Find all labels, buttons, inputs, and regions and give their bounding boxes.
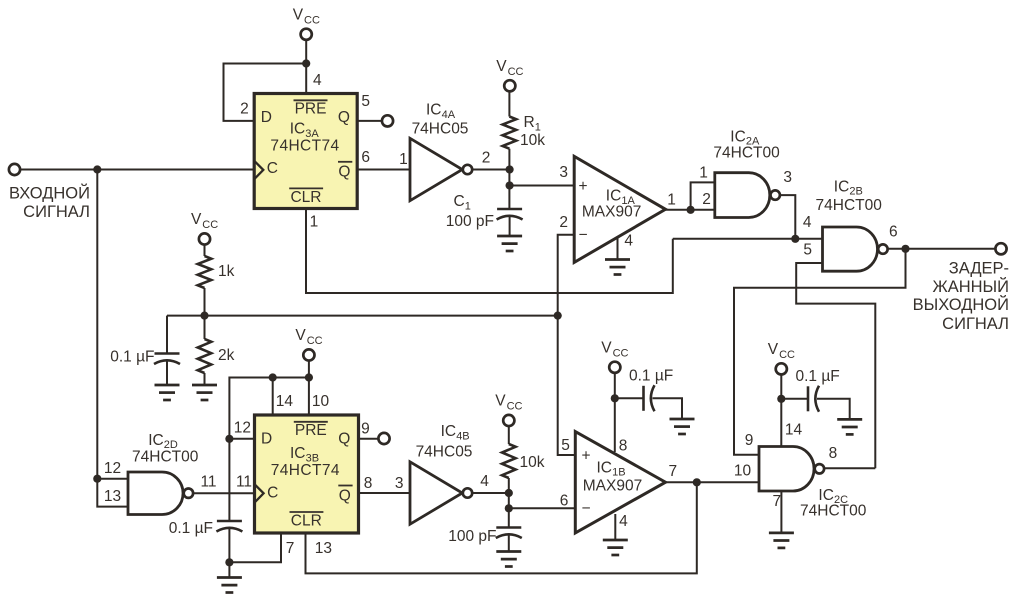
svg-text:6: 6: [361, 149, 370, 166]
svg-text:3: 3: [783, 169, 792, 186]
wire C1 to ground: [509, 216, 511, 237]
svg-text:2: 2: [559, 214, 568, 231]
svg-text:IC: IC: [818, 487, 834, 504]
wire 0.1uF to ground: [166, 360, 168, 385]
wire IC1A - input from divider rail: [558, 235, 575, 455]
wire VCC down to IC3B pin 10: [308, 361, 310, 415]
ground IC1B bypass: [670, 419, 695, 434]
wire 1k to 2k: [204, 288, 206, 339]
svg-text:2k: 2k: [218, 347, 235, 364]
terminal IC3B pin 9 open: [378, 433, 389, 444]
inverter IC4B: [410, 462, 462, 524]
node PRE row left: [269, 373, 277, 381]
ground under C1: [497, 236, 522, 251]
svg-text:C: C: [454, 193, 465, 210]
svg-text:8: 8: [829, 445, 838, 462]
svg-text:Q: Q: [339, 487, 351, 504]
node 10k/IC4B output: [505, 489, 513, 497]
svg-text:IC: IC: [606, 188, 622, 205]
svg-text:Q: Q: [338, 431, 350, 448]
wire IC4B output to RC node: [472, 492, 509, 494]
svg-text:4A: 4A: [442, 109, 456, 121]
svg-text:CC: CC: [779, 349, 795, 361]
svg-text:5: 5: [561, 437, 570, 454]
svg-text:ВХОДНОЙ: ВХОДНОЙ: [9, 183, 90, 202]
svg-text:74HCT74: 74HCT74: [271, 462, 340, 479]
wire IC3B pin 13 to IC1B output node: [306, 482, 697, 573]
node output junction: [901, 245, 909, 253]
power VCC terminal IC2C bypass: [776, 363, 787, 374]
svg-text:−: −: [581, 500, 590, 517]
svg-text:11: 11: [200, 474, 216, 491]
svg-text:V: V: [295, 327, 306, 344]
svg-text:Q: Q: [338, 164, 350, 181]
svg-text:74HC05: 74HC05: [412, 121, 469, 138]
svg-text:2: 2: [482, 150, 491, 167]
wire VCC to IC2C pin 14: [780, 375, 782, 447]
svg-text:V: V: [601, 339, 612, 356]
svg-text:IC: IC: [426, 102, 442, 119]
node IC1A output: [687, 206, 695, 214]
resistor 1k: [198, 256, 212, 288]
wire IC2C pin 7 to ground: [780, 491, 782, 533]
svg-text:−: −: [578, 227, 587, 244]
svg-text:IC: IC: [148, 432, 164, 449]
capacitor 0.1 uF IC2C bypass: [808, 386, 819, 412]
wire feedback VCC tap to IC3A D pin 2: [224, 64, 307, 121]
nand gate IC2A: [715, 173, 770, 218]
wire RC node to IC1A + input: [510, 185, 575, 187]
svg-text:8: 8: [364, 475, 373, 492]
svg-text:4: 4: [803, 214, 812, 231]
svg-text:MAX907: MAX907: [583, 477, 642, 494]
svg-text:IC: IC: [730, 128, 746, 145]
svg-text:CC: CC: [304, 14, 320, 26]
wire IC1B output to IC2C pin 10: [666, 481, 760, 483]
clock input triangle IC3B: [255, 484, 264, 502]
svg-text:3: 3: [395, 475, 404, 492]
wire PRE row to D rail: [229, 378, 309, 522]
wire 100pF to ground: [508, 534, 510, 552]
svg-text:74HCT00: 74HCT00: [816, 197, 883, 214]
wire IC2B output to output terminal: [888, 248, 995, 250]
wire IC3B pin 7 to ground rail: [229, 533, 281, 562]
wire bypass cap to ground: [817, 399, 850, 419]
svg-text:C: C: [267, 484, 278, 501]
wire bypass cap to ground: [653, 398, 683, 419]
svg-text:CC: CC: [307, 335, 323, 347]
capacitor 0.1 uF divider: [154, 354, 180, 365]
nand gate IC2B: [823, 227, 878, 271]
node IC1B bypass tap: [611, 394, 619, 402]
power VCC terminal IC1B bypass: [609, 362, 620, 373]
node R1/IC4A output: [506, 165, 514, 173]
svg-text:ЖАННЫЙ: ЖАННЫЙ: [932, 277, 1009, 296]
svg-text:2B: 2B: [849, 186, 862, 198]
svg-text:11: 11: [236, 474, 252, 491]
svg-text:IC: IC: [834, 178, 850, 195]
svg-text:0.1 µF: 0.1 µF: [629, 368, 673, 385]
wire 10k to 100pF: [508, 478, 510, 528]
wire RC node to IC1B - input: [509, 507, 575, 509]
svg-text:74HCT00: 74HCT00: [132, 448, 199, 465]
svg-text:74HC05: 74HC05: [416, 443, 473, 460]
svg-text:4B: 4B: [456, 430, 469, 442]
svg-text:0.1 µF: 0.1 µF: [796, 368, 840, 385]
svg-text:14: 14: [276, 393, 294, 410]
wire VCC to IC3A PRE pin 4: [305, 40, 307, 94]
svg-text:7: 7: [668, 463, 677, 480]
capacitor C1 100 pF: [497, 209, 523, 220]
svg-text:V: V: [496, 58, 507, 75]
svg-text:CC: CC: [202, 219, 218, 231]
ground IC2C bypass: [837, 419, 862, 434]
svg-text:V: V: [293, 6, 304, 23]
svg-text:5: 5: [803, 242, 812, 259]
wire feedback IC2B output to IC2C pin 9: [734, 249, 906, 455]
capacitor 100 pF B: [496, 528, 522, 539]
svg-text:V: V: [768, 341, 779, 358]
svg-text:10: 10: [312, 393, 330, 410]
wire VCC to 1k: [204, 245, 206, 256]
svg-text:100 pF: 100 pF: [448, 528, 496, 545]
svg-text:CLR: CLR: [290, 189, 321, 206]
svg-text:D: D: [261, 431, 272, 448]
ground under IC1A: [605, 260, 630, 275]
svg-text:4: 4: [624, 232, 633, 249]
svg-text:7: 7: [286, 540, 295, 557]
wire tap to bypass cap: [615, 397, 644, 399]
power VCC terminal above R1: [504, 80, 515, 91]
wire pin 14 drop: [272, 378, 274, 416]
svg-text:+: +: [578, 178, 587, 195]
node ground rail junction: [225, 558, 233, 566]
comparator IC1B MAX907: [575, 432, 665, 533]
svg-text:1: 1: [699, 165, 708, 182]
svg-text:ЗАДЕР-: ЗАДЕР-: [949, 260, 1009, 278]
resistor 10k B: [502, 444, 516, 478]
svg-text:IC: IC: [290, 121, 306, 138]
wire 0.1uF to ground rail: [228, 528, 230, 578]
power VCC terminal above IC3B: [303, 349, 314, 360]
node comparator + tap: [506, 181, 514, 189]
wire branch to IC2D pin 12: [97, 478, 128, 480]
power VCC terminal above IC3A: [301, 29, 312, 40]
resistor 2k: [198, 339, 212, 373]
svg-text:1k: 1k: [218, 263, 235, 280]
svg-text:IC: IC: [597, 459, 613, 476]
svg-text:CC: CC: [508, 66, 524, 78]
wire input to IC3A C input: [20, 169, 254, 171]
wire IC2A output down to pin4 row: [780, 195, 795, 239]
svg-text:CC: CC: [613, 347, 629, 359]
wire 2k to ground: [204, 373, 206, 385]
node IC2A output junction: [791, 235, 799, 243]
svg-text:СИГНАЛ: СИГНАЛ: [942, 315, 1009, 333]
wire IC1B pin 4 to ground: [614, 514, 616, 540]
svg-text:1: 1: [465, 200, 471, 212]
capacitor 0.1 uF near IC3B: [216, 521, 242, 532]
flip-flop IC3B 74HCT74: [255, 415, 359, 533]
node comparator - tap: [505, 504, 513, 512]
node PRE row right: [305, 373, 313, 381]
svg-text:0.1 µF: 0.1 µF: [169, 520, 213, 537]
svg-text:IC: IC: [441, 423, 457, 440]
svg-text:74HCT00: 74HCT00: [713, 145, 780, 162]
wire IC2C output to feedback rail: [825, 467, 876, 469]
svg-text:10k: 10k: [520, 132, 545, 149]
ground under IC2C pin 7: [769, 533, 794, 548]
svg-text:1: 1: [310, 213, 319, 230]
svg-text:6: 6: [560, 493, 569, 510]
svg-text:2: 2: [702, 191, 711, 208]
svg-text:ВЫХОДНОЙ: ВЫХОДНОЙ: [913, 295, 1009, 314]
svg-text:10k: 10k: [520, 454, 545, 471]
svg-text:10: 10: [734, 463, 752, 480]
wire tap to bypass cap: [781, 398, 808, 400]
svg-text:2: 2: [240, 100, 249, 117]
wire IC4A output to RC node: [472, 169, 509, 171]
wire tie to IC3B D pin 12: [229, 438, 254, 440]
svg-text:3: 3: [559, 164, 568, 181]
svg-text:CLR: CLR: [291, 513, 322, 530]
svg-text:D: D: [261, 109, 272, 126]
svg-text:CC: CC: [507, 401, 523, 413]
svg-text:6: 6: [889, 223, 898, 240]
inverter IC4A: [410, 138, 462, 200]
nand gate IC2D: [128, 472, 183, 515]
svg-text:74HCT00: 74HCT00: [800, 503, 867, 520]
wire IC3A Q pin 5 to open terminal: [357, 120, 382, 122]
node IC2C bypass tap: [777, 395, 785, 403]
node IC1B output: [693, 478, 701, 486]
wire IC3B Qbar pin 8 to IC4B input: [359, 492, 410, 494]
svg-text:MAX907: MAX907: [582, 204, 641, 221]
svg-text:4: 4: [619, 513, 628, 530]
terminal output: [995, 243, 1006, 254]
node VCC/PRE tap: [302, 59, 310, 67]
svg-text:C: C: [267, 160, 278, 177]
clock input triangle IC3A: [254, 161, 263, 179]
wire IC3A Qbar pin 6 to IC4A input: [357, 169, 410, 171]
svg-text:IC: IC: [290, 445, 306, 462]
svg-text:5: 5: [361, 93, 370, 110]
capacitor 0.1 uF IC1B bypass: [644, 385, 655, 411]
svg-text:+: +: [581, 448, 590, 465]
wire pin4 row into IC2B: [673, 238, 823, 240]
svg-text:9: 9: [745, 432, 754, 449]
node IC3B D tie: [225, 435, 233, 443]
svg-text:100 pF: 100 pF: [446, 213, 494, 230]
wire divider junction to comparator rail: [167, 315, 558, 317]
svg-text:1: 1: [667, 192, 676, 209]
ground under IC1B: [603, 540, 628, 555]
wire IC2A pin 1 tie: [691, 182, 715, 209]
svg-text:1: 1: [399, 151, 408, 168]
svg-text:4: 4: [313, 72, 322, 89]
svg-text:12: 12: [104, 460, 121, 477]
wire VCC to R1: [508, 92, 510, 117]
svg-text:12: 12: [234, 420, 251, 437]
svg-text:7: 7: [772, 493, 781, 510]
flip-flop IC3A 74HCT74: [254, 94, 357, 209]
wire divider junction to 0.1uF: [166, 316, 168, 354]
svg-text:PRE: PRE: [295, 101, 327, 118]
node divider rail tap: [554, 312, 562, 320]
ground under divider 0.1uF: [155, 385, 180, 400]
wire IC1A pin 4 to ground: [617, 238, 619, 260]
svg-text:13: 13: [104, 488, 121, 505]
svg-text:V: V: [191, 211, 202, 228]
svg-text:V: V: [495, 393, 506, 410]
svg-text:74HCT74: 74HCT74: [270, 138, 339, 155]
node IC2D input junction: [93, 475, 101, 483]
svg-text:8: 8: [619, 438, 628, 455]
svg-text:PRE: PRE: [295, 422, 327, 439]
ground under 100pF B: [496, 552, 521, 567]
ground under IC3B rail: [217, 578, 242, 593]
wire IC1A output to IC2A inputs: [666, 209, 715, 211]
node divider junction: [200, 312, 208, 320]
resistor R1 10k: [503, 117, 517, 149]
input terminal: [9, 164, 20, 175]
wire input down to IC2D inputs: [97, 170, 128, 507]
wire IC2D output to IC3B C input: [193, 492, 254, 494]
node input junction: [93, 165, 101, 173]
terminal IC3A pin 5 open: [382, 115, 393, 126]
wire VCC to 10k: [508, 426, 510, 444]
svg-text:СИГНАЛ: СИГНАЛ: [23, 203, 90, 221]
wire R1 to C1: [508, 149, 510, 209]
svg-text:4: 4: [480, 473, 489, 490]
svg-text:0.1 µF: 0.1 µF: [110, 349, 154, 366]
ground under 2k: [192, 385, 217, 400]
wire IC3B Q pin 9 to open terminal: [359, 438, 379, 440]
wire IC3A CLR pin 1 loop to IC2B pin 4 row: [306, 209, 673, 294]
svg-text:13: 13: [315, 540, 332, 557]
wire VCC to IC1B pin 8: [614, 373, 616, 452]
nand gate IC2C: [759, 447, 814, 492]
svg-text:9: 9: [361, 421, 370, 438]
comparator IC1A MAX907: [574, 156, 665, 262]
power VCC terminal above 10k B: [503, 415, 514, 426]
power VCC terminal above 1k: [199, 233, 210, 244]
svg-text:14: 14: [785, 422, 803, 439]
wire IC2B pin 5 from IC2C output: [796, 263, 875, 468]
svg-text:Q: Q: [338, 109, 350, 126]
svg-text:R: R: [524, 114, 535, 131]
